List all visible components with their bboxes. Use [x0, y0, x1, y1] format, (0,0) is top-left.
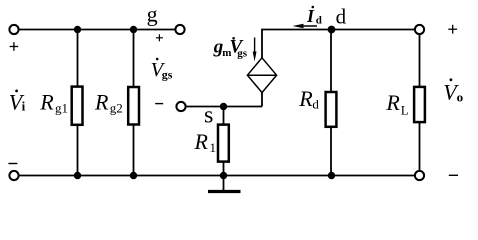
- node junction (Rg2 top): [130, 26, 137, 33]
- resistor Rg2: [128, 87, 139, 125]
- minus sign output: [449, 174, 458, 176]
- wire Rd top: [330, 30, 332, 93]
- label RL: [385, 90, 408, 118]
- terminal output - (open circle): [415, 171, 424, 180]
- wire RL top: [419, 34, 421, 87]
- svg-text:gs: gs: [237, 48, 248, 60]
- resistor R1: [218, 125, 229, 162]
- label Id: [306, 6, 322, 27]
- svg-text:g1: g1: [55, 101, 68, 116]
- svg-text:o: o: [457, 89, 464, 104]
- ground: [208, 176, 241, 192]
- svg-text:L: L: [401, 103, 409, 118]
- label Vgs: [151, 58, 173, 82]
- wire source horizontal: [186, 106, 262, 108]
- node junction (Rd bottom): [328, 172, 335, 179]
- resistor Rg1: [72, 87, 83, 125]
- terminal input + (open circle): [9, 25, 18, 34]
- svg-text:d: d: [312, 97, 319, 112]
- label Vo: [443, 78, 463, 104]
- svg-text:R: R: [298, 86, 313, 111]
- arrow current source direction (down): [253, 38, 257, 62]
- arrow id (pointing left): [293, 24, 318, 28]
- node junction (Rg2 bottom): [130, 172, 137, 179]
- label gmVgs: [213, 37, 248, 60]
- label Rg1: [39, 90, 68, 116]
- minus sign source: [155, 103, 163, 105]
- current source gmVgs (diamond): [247, 58, 276, 93]
- node junction d: [328, 26, 336, 34]
- minus sign input: [8, 163, 17, 165]
- resistor Rd: [326, 92, 337, 127]
- node junction (Rg1 top): [74, 26, 81, 33]
- svg-text:d: d: [336, 4, 347, 28]
- plus sign output: [448, 25, 457, 34]
- wire top rail left (input + to gate): [19, 29, 175, 31]
- plus sign input: [10, 42, 19, 51]
- node junction (ground): [220, 172, 227, 179]
- node junction s: [220, 103, 227, 110]
- label Rg2: [94, 90, 123, 116]
- svg-text:R: R: [194, 129, 209, 154]
- label Rd: [298, 86, 319, 112]
- svg-text:g: g: [147, 2, 158, 27]
- wire current source branch (corner up + top to diamond): [262, 30, 414, 107]
- plus sign gate: [156, 34, 163, 41]
- label Vi: [9, 90, 26, 115]
- terminal input - (open circle): [9, 171, 18, 180]
- label R1: [194, 129, 217, 155]
- wire RL bottom: [419, 122, 421, 171]
- svg-text:d: d: [316, 15, 322, 27]
- wire Rg2 top: [133, 30, 135, 88]
- svg-text:1: 1: [210, 140, 217, 155]
- terminal output + (open circle): [415, 25, 424, 34]
- wire Rd bottom: [330, 127, 332, 176]
- svg-text:R: R: [385, 90, 400, 115]
- wire Rg2 bottom: [133, 125, 135, 176]
- node junction (Rg1 bottom): [74, 172, 81, 179]
- resistor RL: [414, 87, 425, 122]
- svg-text:i: i: [22, 99, 26, 114]
- svg-text:R: R: [39, 90, 54, 115]
- terminal source s (open circle): [176, 102, 185, 111]
- wire R1 top: [223, 107, 225, 126]
- wire bottom rail: [19, 175, 414, 177]
- svg-text:gs: gs: [162, 68, 173, 82]
- wire Rg1 top: [77, 30, 79, 88]
- svg-text:I: I: [306, 6, 315, 26]
- terminal gate g (open circle): [175, 25, 184, 34]
- svg-text:R: R: [94, 90, 109, 115]
- wire Rg1 bottom: [77, 125, 79, 176]
- svg-text:g2: g2: [110, 101, 123, 116]
- wire R1 bottom: [223, 161, 225, 175]
